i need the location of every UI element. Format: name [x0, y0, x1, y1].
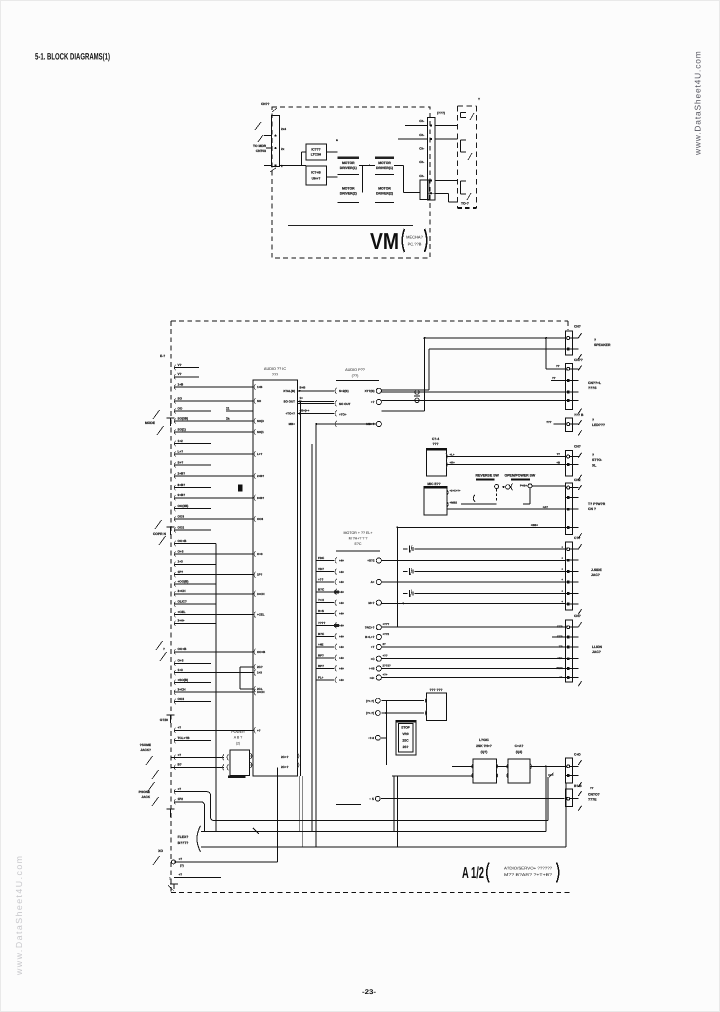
svg-text:FDC: FDC [318, 556, 325, 560]
svg-text:CN2: CN2 [574, 478, 581, 482]
svg-text:+B: +B [556, 461, 560, 465]
svg-text:2SK ?H+?: 2SK ?H+? [476, 744, 492, 748]
svg-text:+4+: +4+ [339, 635, 344, 639]
svg-text:VM: VM [370, 228, 399, 254]
svg-text:+?: +? [178, 726, 182, 730]
svg-text:+?: +? [371, 400, 375, 404]
svg-text:C+A?: C+A? [515, 744, 524, 748]
svg-text:G?20: G?20 [160, 718, 168, 722]
svg-text:Y: Y [478, 97, 480, 101]
svg-text:XTAL(B): XTAL(B) [283, 389, 295, 393]
svg-text:??: ?? [590, 786, 594, 790]
svg-text:?SOME: ?SOME [140, 743, 151, 747]
svg-text:www.DataSheet4U.com: www.DataSheet4U.com [14, 855, 24, 976]
svg-text:+CEL: +CEL [257, 613, 265, 617]
svg-text:2C?: 2C? [257, 665, 263, 669]
svg-text:CTP: CTP [557, 625, 563, 629]
svg-text:??: ?? [557, 452, 561, 456]
svg-text:+2+C+?+: +2+C+?+ [450, 490, 461, 493]
svg-text:???: ??? [272, 373, 278, 377]
svg-text:??: ?? [556, 364, 560, 368]
svg-text:2C+?: 2C+? [281, 765, 289, 769]
svg-text:1+: 1+ [300, 396, 304, 400]
svg-text:2?: 2? [383, 642, 387, 646]
svg-text:CN??: CN?? [261, 102, 270, 106]
svg-text:TCL+?B: TCL+?B [178, 736, 191, 740]
svg-text:M+?: M+? [368, 601, 374, 605]
svg-text:MB+: MB+ [289, 422, 296, 426]
svg-text:UH+?: UH+? [312, 177, 321, 181]
svg-text:1+B: 1+B [257, 385, 262, 389]
svg-text:CN??: CN?? [574, 358, 583, 362]
svg-text:B+L+?: B+L+? [365, 635, 375, 639]
svg-text:POWER: POWER [231, 730, 245, 734]
svg-text:B? B: B? B [574, 784, 582, 788]
svg-text:??? ???: ??? ??? [430, 688, 443, 692]
svg-text:C??: C?? [574, 536, 580, 540]
svg-text:TP: TP [559, 645, 563, 649]
svg-text:+??2: +??2 [383, 632, 390, 636]
svg-text:MOTOR: MOTOR [378, 161, 391, 165]
svg-text:+4+: +4+ [339, 580, 344, 584]
svg-text:???: ??? [546, 420, 552, 424]
svg-text:OO3: OO3 [257, 517, 263, 521]
svg-text:CN703: CN703 [256, 149, 266, 153]
svg-text:B+B: B+B [300, 386, 306, 390]
svg-text:2x: 2x [281, 147, 285, 151]
svg-text:SO(3B): SO(3B) [178, 416, 189, 420]
svg-text:2+B?: 2+B? [178, 471, 186, 475]
svg-text:5: 5 [169, 877, 171, 881]
svg-text:XO: XO [158, 849, 163, 853]
svg-text:a: a [336, 138, 338, 142]
svg-text:FL+: FL+ [318, 676, 324, 680]
svg-text:?+H: ?+H [318, 598, 324, 602]
svg-text:2CL: 2CL [257, 687, 263, 691]
svg-text:B?C: B?C [318, 588, 325, 592]
svg-text:M?? B?AR? ?+T+B?: M?? B?AR? ?+T+B? [504, 872, 553, 877]
svg-text:?: ? [592, 453, 594, 457]
svg-text:1+2: 1+2 [178, 439, 184, 443]
svg-text:SPEAKER: SPEAKER [594, 343, 611, 347]
svg-text:??: ?? [552, 376, 556, 380]
svg-text:+?: +? [178, 787, 182, 791]
svg-text:+4+: +4+ [339, 678, 344, 682]
svg-text:+4+: +4+ [339, 656, 344, 660]
svg-text:JAC?: JAC? [592, 650, 601, 654]
svg-text:Ch-: Ch- [419, 160, 424, 164]
svg-text:???S: ???S [588, 386, 597, 390]
svg-text:(??): (??) [352, 374, 359, 378]
svg-text:CN?: CN? [574, 325, 581, 329]
svg-text:OO3: OO3 [178, 514, 185, 518]
svg-text:ST?O-: ST?O- [592, 458, 602, 462]
svg-text:?RC+?: ?RC+? [365, 625, 375, 629]
svg-text:?: ? [592, 418, 594, 422]
svg-text:+4+: +4+ [339, 601, 344, 605]
svg-text:OPEN/POWER SW: OPEN/POWER SW [505, 473, 536, 477]
svg-text:(Q2): (Q2) [516, 750, 523, 754]
svg-text:S+?: S+? [178, 460, 184, 464]
svg-text:~ S: ~ S [369, 797, 374, 801]
svg-text:Ch-: Ch- [419, 174, 424, 178]
svg-text:21: 21 [226, 407, 230, 411]
svg-text:9+B?: 9+B? [257, 496, 264, 500]
svg-text:SO(3: SO(3 [257, 419, 264, 423]
svg-text:++B: ++B [369, 667, 376, 671]
svg-text:1+B: 1+B [178, 382, 185, 386]
svg-text:DRIVER(2): DRIVER(2) [340, 192, 357, 196]
svg-text:???E: ???E [588, 798, 597, 802]
svg-text:DRIVER(1): DRIVER(1) [340, 166, 357, 170]
svg-text:MIC E??: MIC E?? [427, 482, 440, 486]
svg-text:OO3: OO3 [178, 697, 185, 701]
svg-text:TO-?: TO-? [461, 202, 469, 206]
svg-text:B?C: B?C [318, 632, 325, 636]
svg-text:SO: SO [178, 396, 183, 400]
svg-text:O+3: O+3 [178, 549, 184, 553]
svg-text:?: ? [594, 338, 596, 342]
svg-text:JAC?: JAC? [591, 573, 600, 577]
svg-text:+4+: +4+ [339, 559, 344, 563]
svg-text:++: ++ [559, 675, 563, 679]
svg-text:MOTOR: MOTOR [342, 187, 355, 191]
svg-text:IC???: IC??? [311, 148, 320, 152]
svg-text:OO+B: OO+B [257, 650, 265, 654]
svg-text:?: ? [163, 647, 165, 651]
svg-text:REVERSE SW: REVERSE SW [476, 473, 500, 477]
svg-text:CN ?: CN ? [588, 507, 596, 511]
svg-text:SO(1): SO(1) [178, 427, 186, 431]
svg-text:LED???: LED??? [592, 423, 605, 427]
svg-text:+T: +T [371, 645, 375, 649]
svg-text:1+3: 1+3 [257, 671, 262, 675]
svg-text:OO: OO [178, 406, 183, 410]
svg-text:MECHA?: MECHA? [406, 235, 423, 240]
svg-text:2C+?: 2C+? [281, 755, 289, 759]
svg-text:www.DataSheet4U.com: www.DataSheet4U.com [693, 50, 703, 156]
svg-text:O+3: O+3 [257, 552, 263, 556]
svg-text:MOTOR: MOTOR [342, 161, 355, 165]
svg-text:5-1. BLOCK DIAGRAMS(1): 5-1. BLOCK DIAGRAMS(1) [35, 52, 110, 62]
svg-text:+B+(++: +B+(++ [300, 408, 310, 412]
svg-text:A B ?: A B ? [234, 736, 243, 740]
svg-text:+TO+: +TO+ [339, 413, 347, 417]
svg-text:+???: +??? [383, 622, 390, 626]
svg-text:L?GIC: L?GIC [479, 738, 490, 742]
svg-text:CN??+L: CN??+L [588, 381, 601, 385]
svg-text:FLEX?: FLEX? [178, 835, 189, 839]
svg-text:+A?: +A? [543, 505, 549, 509]
svg-text:CTP: CTP [557, 635, 563, 639]
svg-text:+4E: +4E [318, 643, 323, 647]
svg-text:+S?2: +S?2 [367, 559, 375, 563]
svg-text:+MB2: +MB2 [450, 501, 458, 505]
svg-text:(?+.?(: (?+.?( [366, 699, 374, 703]
svg-text:PC.??B: PC.??B [408, 242, 422, 247]
svg-text:CN?: CN? [574, 614, 581, 618]
svg-text:2??2?: 2??2? [383, 664, 392, 668]
svg-text:2x4: 2x4 [281, 127, 286, 131]
svg-text:+??: +?? [318, 578, 324, 582]
svg-text:8+B?: 8+B? [178, 483, 186, 487]
svg-text:OO+B: OO+B [178, 539, 188, 543]
svg-text:1+3: 1+3 [178, 560, 184, 564]
svg-text:??? B: ??? B [574, 413, 584, 417]
svg-text:L+?: L+? [257, 452, 262, 456]
svg-text:+4+: +4+ [339, 645, 344, 649]
svg-text:A 1/2: A 1/2 [462, 865, 484, 882]
svg-text:RP?: RP? [318, 664, 324, 668]
svg-text:A+: A+ [371, 580, 375, 584]
svg-text:JACK: JACK [141, 795, 150, 799]
svg-text:+4+: +4+ [339, 667, 344, 671]
svg-text:LI.ION: LI.ION [592, 645, 603, 649]
svg-text:B??T?: B??T? [178, 841, 189, 845]
svg-text:Ch-: Ch- [419, 133, 424, 137]
svg-text:1P2: 1P2 [178, 797, 184, 801]
svg-text:VR0: VR0 [402, 732, 408, 736]
svg-text:AUDIO P??: AUDIO P?? [345, 368, 365, 372]
svg-text:A?DIO/SERVO+ ??????: A?DIO/SERVO+ ?????? [504, 866, 553, 871]
svg-text:2a: 2a [226, 417, 230, 421]
svg-text:+CEL: +CEL [178, 610, 186, 614]
svg-text:RF?: RF? [318, 653, 324, 657]
svg-text:MODE: MODE [145, 421, 156, 425]
svg-text:J.SIDE: J.SIDE [591, 568, 602, 572]
svg-text:1+3: 1+3 [178, 668, 184, 672]
svg-text:3+CH: 3+CH [257, 592, 264, 596]
svg-text:MOTOR + ?? EL+: MOTOR + ?? EL+ [344, 531, 373, 535]
svg-text:O+3: O+3 [178, 659, 184, 663]
svg-text:2SC: 2SC [402, 739, 409, 743]
svg-text:+BB+: +BB+ [531, 523, 539, 527]
svg-text:3+CH: 3+CH [178, 688, 187, 692]
svg-text:SO(1: SO(1 [257, 430, 264, 434]
svg-text:???: ??? [432, 442, 438, 446]
svg-text:E?C: E?C [355, 542, 362, 546]
svg-text:V?: V? [178, 372, 182, 376]
svg-text:M ?H+? ? ?: M ?H+? ? ? [349, 537, 368, 541]
svg-text:IC?+B: IC?+B [311, 171, 321, 175]
svg-text:OLIC?: OLIC? [178, 600, 187, 604]
svg-text:MOTOR: MOTOR [378, 187, 391, 191]
svg-text:P+B+: P+B+ [520, 484, 528, 488]
svg-text:+SO(B): +SO(B) [178, 678, 189, 682]
svg-text:+??: +?? [383, 654, 388, 658]
svg-text:COPR N: COPR N [153, 532, 167, 536]
svg-text:CN?: CN? [574, 444, 581, 448]
svg-text:B?: B? [178, 763, 182, 767]
svg-text:V?: V? [178, 363, 182, 367]
svg-text:+4+: +4+ [369, 676, 374, 680]
svg-text:OO(3B): OO(3B) [178, 504, 189, 508]
svg-text:OO2: OO2 [178, 525, 185, 529]
svg-text:+?: +? [179, 857, 183, 861]
svg-text:SO OUT: SO OUT [339, 402, 351, 406]
svg-text:3+4+: 3+4+ [178, 619, 185, 623]
svg-text:3+CH: 3+CH [178, 589, 187, 593]
svg-text:L+?: L+? [178, 449, 184, 453]
svg-text:T? P?W?R: T? P?W?R [588, 502, 606, 506]
svg-text:LTC3H: LTC3H [311, 153, 322, 157]
svg-text:~?-8: ~?-8 [368, 736, 374, 740]
svg-text:+4+: +4+ [339, 624, 344, 628]
svg-text:+?: +? [178, 753, 182, 757]
svg-text:XL: XL [592, 463, 596, 467]
svg-text:-23-: -23- [362, 989, 376, 996]
svg-text:????: ???? [318, 621, 325, 625]
svg-text:VD?: VD? [318, 567, 324, 571]
svg-text:(?+.?(: (?+.?( [366, 711, 374, 715]
svg-text:+OO(B): +OO(B) [178, 579, 189, 583]
svg-text:R+S: R+S [318, 609, 324, 613]
svg-text:+R+: +R+ [450, 461, 456, 465]
svg-text:S+2(B): S+2(B) [339, 389, 349, 393]
svg-text:+?: +? [179, 873, 183, 877]
svg-text:+TO+?: +TO+? [286, 412, 296, 416]
svg-text:+?+: +?+ [383, 673, 388, 677]
svg-text:(Q?): (Q?) [481, 750, 488, 754]
svg-text:2+B?: 2+B? [257, 474, 264, 478]
svg-text:OO+B: OO+B [178, 647, 188, 651]
svg-text:C?-4: C?-4 [432, 437, 439, 441]
svg-text:+4+: +4+ [339, 612, 344, 616]
svg-text:CN?O?: CN?O? [588, 793, 600, 797]
svg-text:+4+: +4+ [339, 570, 344, 574]
svg-text:E-?: E-? [160, 354, 165, 358]
svg-text:Ch-: Ch- [419, 119, 424, 123]
svg-text:STOP: STOP [401, 726, 410, 730]
svg-text:9+B?: 9+B? [178, 493, 186, 497]
svg-text:1P?: 1P? [257, 573, 263, 577]
svg-text:(?): (?) [180, 864, 184, 868]
svg-text:Ch-: Ch- [419, 146, 424, 150]
svg-text:2S?: 2S? [403, 745, 409, 749]
svg-text:DRIVER(1): DRIVER(1) [376, 166, 393, 170]
svg-text:(???): (???) [437, 111, 445, 115]
svg-text:C+D: C+D [574, 753, 581, 757]
svg-text:TO MDR: TO MDR [253, 144, 267, 148]
svg-text:+C+: +C+ [557, 656, 563, 660]
svg-text:XT?(B): XT?(B) [365, 389, 375, 393]
svg-text:SO OUT: SO OUT [283, 400, 295, 404]
svg-text:DRIVER(2): DRIVER(2) [376, 192, 393, 196]
svg-text:+4+: +4+ [339, 590, 344, 594]
svg-text:JACK?: JACK? [140, 748, 151, 752]
svg-text:1P?: 1P? [178, 570, 184, 574]
svg-text:+L+: +L+ [450, 453, 455, 457]
svg-text:AUDIO ?? IC: AUDIO ?? IC [264, 367, 286, 371]
svg-text:(2): (2) [236, 742, 240, 746]
svg-text:RCH: RCH [556, 666, 562, 670]
svg-text:+?: +? [257, 728, 261, 732]
